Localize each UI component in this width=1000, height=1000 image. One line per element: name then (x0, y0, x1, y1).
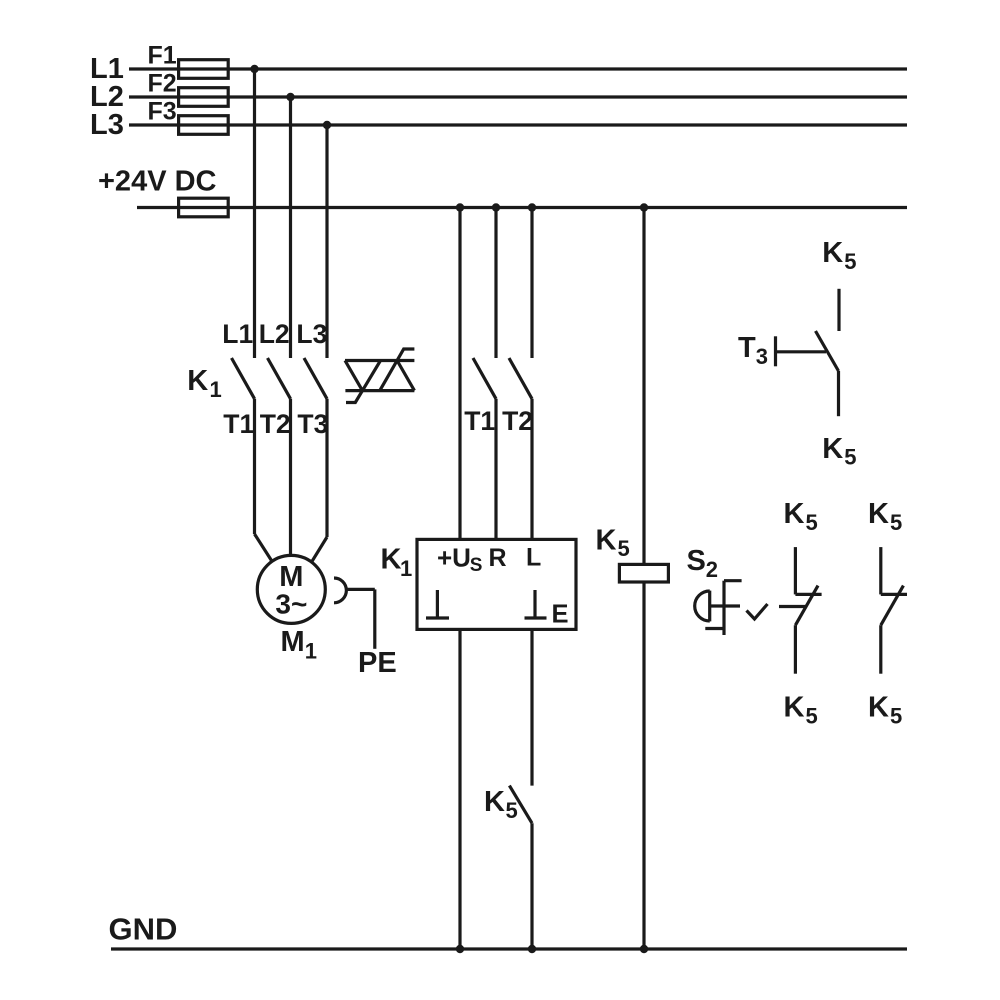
svg-text:F1: F1 (148, 42, 177, 70)
svg-text:K: K (784, 692, 805, 724)
svg-text:1: 1 (210, 377, 222, 402)
svg-text:L: L (526, 543, 541, 571)
svg-text:R: R (489, 544, 507, 572)
svg-text:S: S (470, 555, 483, 576)
svg-text:5: 5 (844, 445, 856, 470)
svg-text:F2: F2 (148, 70, 177, 98)
svg-text:K: K (784, 498, 805, 530)
svg-text:5: 5 (890, 510, 902, 535)
svg-text:GND: GND (109, 912, 178, 947)
svg-text:T: T (738, 332, 756, 364)
svg-text:T3: T3 (297, 409, 328, 439)
svg-text:T1: T1 (464, 406, 495, 436)
svg-text:PE: PE (358, 647, 397, 679)
svg-text:T2: T2 (502, 406, 533, 436)
svg-text:3: 3 (756, 344, 768, 369)
svg-text:5: 5 (890, 704, 902, 729)
svg-text:T1: T1 (223, 409, 254, 439)
svg-text:K: K (822, 237, 843, 269)
svg-text:E: E (552, 600, 569, 628)
svg-text:K: K (868, 498, 889, 530)
svg-text:+U: +U (437, 542, 471, 572)
svg-text:5: 5 (806, 510, 818, 535)
svg-text:1: 1 (400, 556, 412, 581)
svg-text:K: K (381, 544, 402, 576)
svg-text:1: 1 (305, 639, 317, 664)
svg-text:K: K (484, 786, 505, 818)
svg-text:5: 5 (844, 249, 856, 274)
svg-text:5: 5 (506, 798, 518, 823)
svg-text:3~: 3~ (275, 589, 307, 620)
svg-text:M: M (281, 626, 305, 658)
svg-text:5: 5 (618, 536, 630, 561)
svg-text:S: S (687, 545, 706, 577)
svg-text:L1: L1 (222, 319, 253, 349)
svg-text:5: 5 (806, 704, 818, 729)
svg-text:K: K (868, 692, 889, 724)
svg-text:L3: L3 (90, 109, 124, 141)
svg-text:F3: F3 (148, 98, 177, 126)
svg-text:T2: T2 (260, 409, 291, 439)
svg-text:K: K (187, 365, 208, 397)
svg-text:2: 2 (706, 557, 718, 582)
svg-text:K: K (822, 433, 843, 465)
svg-text:L2: L2 (259, 319, 290, 349)
svg-text:L3: L3 (296, 319, 327, 349)
svg-text:+24V DC: +24V DC (98, 166, 217, 198)
svg-text:K: K (596, 525, 617, 557)
